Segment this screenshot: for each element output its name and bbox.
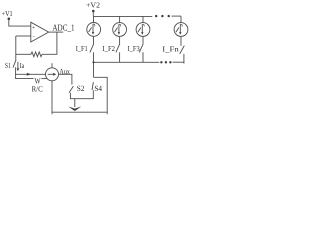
svg-text:I_F3: I_F3: [128, 44, 140, 53]
switch I_Fn slash: [180, 46, 185, 54]
wire +V1 to op-amp noninverting input: [9, 19, 31, 26]
wire +V2 stem to top bus: [92, 11, 94, 16]
current source I_Fn circle: [174, 23, 188, 37]
svg-text:S4: S4: [94, 84, 102, 93]
wire stem bus to source I_F3: [142, 16, 144, 22]
wire leg2 to lower bus: [119, 52, 121, 62]
Aux source internal arrow: [48, 73, 54, 75]
wire op-amp output to ADC stub: [49, 31, 64, 33]
wire inverting input stub: [16, 35, 31, 37]
switch I_F2 slash: [116, 44, 120, 53]
node +V1 terminal dot: [8, 18, 11, 21]
junction leg1-bus: [92, 61, 94, 63]
svg-text:+: +: [32, 25, 35, 31]
wire top supply bus left span: [93, 15, 152, 17]
switch S4 tick: [92, 82, 93, 90]
svg-text:S1: S1: [5, 61, 11, 70]
top bus continuation dots: [155, 15, 157, 17]
node +V2 terminal dot: [92, 10, 95, 13]
wire lower collector bus left span: [94, 61, 160, 63]
wire leg1 down through bus to jog: [93, 52, 95, 77]
svg-text:I_F2: I_F2: [102, 44, 115, 53]
svg-text:ADC_1: ADC_1: [52, 23, 74, 33]
wire I_F1 to switch: [93, 36, 95, 44]
svg-text:I_F1: I_F1: [76, 44, 88, 53]
wire stem bus to source I_F1: [93, 16, 95, 22]
Aux source stub above: [51, 63, 53, 68]
wire feedback resistor rail left: [16, 53, 31, 55]
resistor R feedback zigzag: [31, 52, 42, 57]
wire stem bus to source I_F2: [119, 16, 121, 22]
wire feedback left vertical upper: [15, 36, 17, 61]
ground arrow stem: [74, 99, 76, 107]
wire lower collector bus right span: [173, 61, 185, 63]
current direction arrow on wire to Aux: [27, 73, 31, 76]
switch S1 slash: [13, 60, 16, 67]
wire feedback resistor rail right and up to output: [42, 32, 57, 54]
switch S2 slash: [69, 86, 73, 93]
svg-text:+V1: +V1: [2, 9, 13, 18]
current source Aux circle: [46, 68, 59, 81]
wire S1 lower segment: [16, 67, 46, 74]
svg-text:+V2: +V2: [86, 0, 100, 9]
ground arrow head: [68, 107, 81, 112]
switch I_F1 slash: [90, 44, 94, 53]
svg-text:−: −: [32, 35, 35, 41]
current source I_F2 circle: [113, 23, 127, 37]
lower bus continuation dots: [160, 61, 162, 63]
op-amp U1: [31, 22, 49, 42]
svg-text:I_Fn: I_Fn: [162, 45, 179, 54]
wire I_F3 to switch: [142, 36, 144, 43]
switch I_F3 slash: [139, 44, 143, 53]
wire leg n to lower bus: [183, 54, 185, 64]
wire top supply bus right span: [172, 15, 182, 17]
current arrow Ia: [17, 62, 19, 69]
svg-text:S2: S2: [77, 84, 85, 93]
svg-text:Ia: Ia: [20, 61, 25, 70]
wire Aux to S2: [59, 74, 72, 84]
wire S4 jog to bottom bus: [94, 77, 108, 114]
wire I_F2 to switch: [119, 36, 121, 43]
wire bottom return bus: [52, 111, 107, 113]
current source I_F3 circle: [136, 23, 150, 37]
current source I_F1 circle: [87, 23, 101, 37]
wire S2 lower to junction rail: [70, 90, 93, 99]
wire leg3 to lower bus: [142, 52, 144, 62]
svg-text:R/C: R/C: [32, 85, 43, 94]
wire W lower parallel branch: [16, 74, 34, 78]
wire I_Fn to switch: [180, 36, 182, 46]
wire bottom bus up to Aux source: [51, 81, 53, 115]
wire stem bus to source I_Fn: [180, 16, 182, 23]
